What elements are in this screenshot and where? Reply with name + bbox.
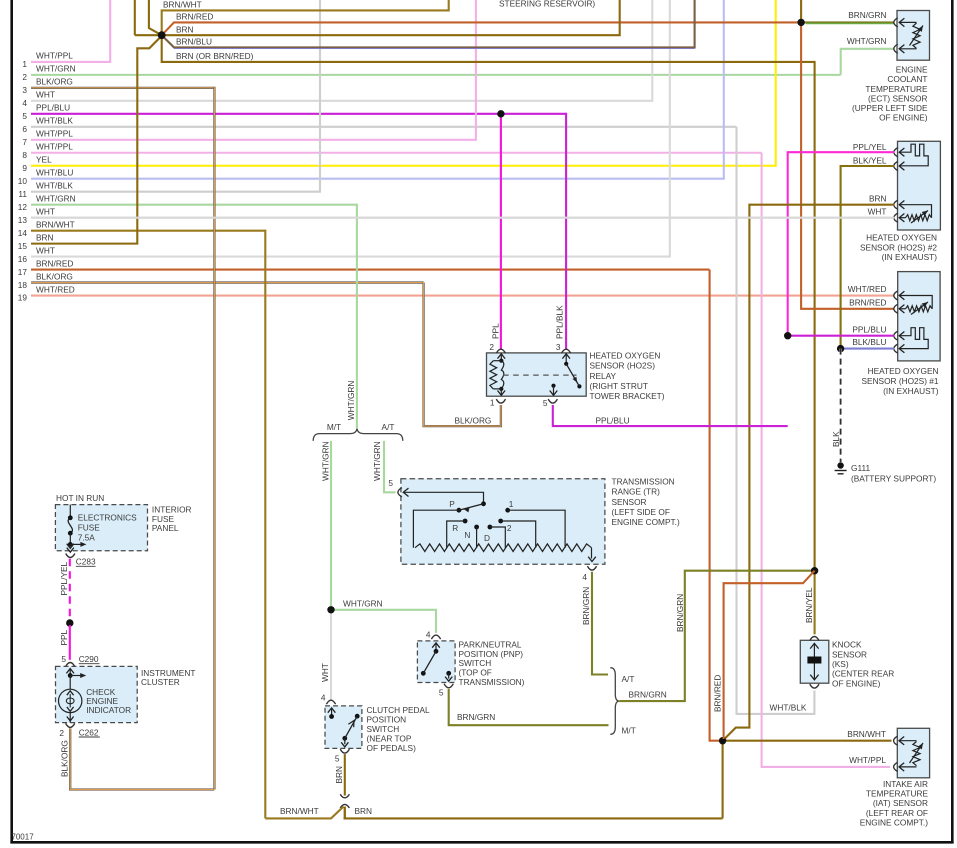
svg-text:5: 5 [543, 398, 548, 408]
svg-text:(UPPER LEFT SIDE: (UPPER LEFT SIDE [852, 103, 928, 113]
svg-text:16: 16 [18, 254, 28, 264]
svg-text:OF ENGINE): OF ENGINE) [832, 678, 881, 688]
svg-text:BRN/GRN: BRN/GRN [457, 712, 495, 722]
svg-text:CLUSTER: CLUSTER [141, 677, 180, 687]
svg-text:2: 2 [489, 342, 494, 352]
svg-text:TRANSMISSION): TRANSMISSION) [459, 677, 525, 687]
svg-text:BRN/GRN: BRN/GRN [848, 10, 886, 20]
svg-text:PPL/BLU: PPL/BLU [36, 103, 70, 113]
svg-text:ELECTRONICS: ELECTRONICS [78, 513, 137, 523]
svg-text:BRN/GRN: BRN/GRN [629, 690, 667, 700]
svg-text:2: 2 [22, 72, 27, 82]
svg-text:1: 1 [22, 59, 27, 69]
svg-text:TEMPERATURE: TEMPERATURE [866, 789, 929, 799]
svg-text:BLK/ORG: BLK/ORG [36, 77, 73, 87]
svg-text:BRN/BLU: BRN/BLU [176, 37, 212, 47]
svg-text:3: 3 [556, 342, 561, 352]
svg-text:7: 7 [22, 137, 27, 147]
svg-text:M/T: M/T [327, 422, 341, 432]
svg-text:HEATED OXYGEN: HEATED OXYGEN [868, 366, 939, 376]
svg-text:HEATED OXYGEN: HEATED OXYGEN [590, 350, 661, 360]
svg-text:BRN/GRN: BRN/GRN [581, 587, 591, 625]
svg-text:(BATTERY SUPPORT): (BATTERY SUPPORT) [851, 474, 936, 484]
svg-text:WHT/GRN: WHT/GRN [346, 381, 356, 421]
svg-text:P: P [449, 499, 455, 509]
svg-text:SENSOR: SENSOR [612, 497, 647, 507]
svg-text:BRN: BRN [869, 193, 887, 203]
svg-text:G111: G111 [851, 463, 870, 473]
svg-text:4: 4 [22, 98, 27, 108]
svg-text:19: 19 [18, 293, 28, 303]
svg-text:9: 9 [22, 163, 27, 173]
svg-text:5: 5 [22, 111, 27, 121]
svg-text:BRN/WHT: BRN/WHT [847, 729, 886, 739]
svg-text:BRN/WHT: BRN/WHT [36, 219, 75, 229]
svg-text:A/T: A/T [382, 422, 395, 432]
svg-text:WHT/PPL: WHT/PPL [36, 51, 73, 61]
svg-text:D: D [484, 533, 490, 543]
svg-text:SENSOR: SENSOR [832, 649, 867, 659]
svg-text:BRN/RED: BRN/RED [712, 675, 722, 712]
svg-text:KNOCK: KNOCK [832, 640, 862, 650]
svg-text:WHT/GRN: WHT/GRN [320, 441, 330, 481]
svg-text:OF PEDALS): OF PEDALS) [367, 743, 417, 753]
svg-text:PPL/BLU: PPL/BLU [852, 324, 886, 334]
svg-text:1: 1 [490, 398, 495, 408]
svg-text:7.5A: 7.5A [78, 533, 96, 543]
svg-text:2: 2 [59, 728, 64, 738]
svg-text:3: 3 [22, 85, 27, 95]
svg-text:BRN: BRN [355, 806, 373, 816]
svg-text:17: 17 [18, 267, 28, 277]
svg-text:PPL/YEL: PPL/YEL [853, 142, 887, 152]
svg-text:BRN: BRN [176, 24, 194, 34]
svg-text:5: 5 [335, 754, 340, 764]
svg-text:8: 8 [22, 150, 27, 160]
svg-text:(RIGHT STRUT: (RIGHT STRUT [590, 381, 648, 391]
svg-text:(CENTER REAR: (CENTER REAR [832, 669, 894, 679]
svg-text:BRN: BRN [36, 232, 54, 242]
svg-text:(ECT) SENSOR: (ECT) SENSOR [868, 93, 927, 103]
svg-text:4: 4 [426, 630, 431, 640]
svg-text:N: N [464, 530, 470, 540]
svg-text:BRN/RED: BRN/RED [176, 12, 213, 22]
svg-text:(IN EXHAUST): (IN EXHAUST) [882, 252, 938, 262]
svg-text:COOLANT: COOLANT [887, 74, 927, 84]
svg-text:R: R [452, 523, 458, 533]
svg-text:70017: 70017 [11, 832, 34, 841]
svg-text:HEATED OXYGEN: HEATED OXYGEN [866, 232, 937, 242]
svg-text:BRN/YEL: BRN/YEL [804, 587, 814, 623]
svg-text:YEL: YEL [36, 155, 52, 165]
svg-text:WHT/BLK: WHT/BLK [770, 702, 807, 712]
svg-text:ENGINE COMPT.): ENGINE COMPT.) [860, 818, 928, 828]
svg-text:WHT: WHT [36, 245, 55, 255]
svg-text:WHT/PPL: WHT/PPL [36, 129, 73, 139]
svg-text:SENSOR (HO2S) #2: SENSOR (HO2S) #2 [860, 242, 937, 252]
svg-text:WHT: WHT [868, 206, 887, 216]
svg-text:10: 10 [18, 176, 28, 186]
svg-text:WHT/BLK: WHT/BLK [36, 116, 73, 126]
svg-text:RELAY: RELAY [590, 371, 617, 381]
svg-text:BRN/GRN: BRN/GRN [675, 594, 685, 632]
svg-text:PPL: PPL [490, 323, 500, 339]
svg-text:PPL: PPL [59, 629, 69, 645]
svg-text:1: 1 [509, 499, 514, 509]
svg-text:15: 15 [18, 241, 28, 251]
svg-text:M/T: M/T [622, 726, 636, 736]
svg-text:13: 13 [18, 215, 28, 225]
svg-text:BRN/RED: BRN/RED [36, 258, 73, 268]
svg-text:(IN EXHAUST): (IN EXHAUST) [883, 386, 939, 396]
svg-text:PPL/BLK: PPL/BLK [555, 305, 565, 339]
svg-text:WHT/BLK: WHT/BLK [36, 181, 73, 191]
svg-text:TOWER BRACKET): TOWER BRACKET) [590, 391, 665, 401]
svg-text:2: 2 [507, 523, 512, 533]
svg-text:FUSE: FUSE [78, 523, 101, 533]
svg-text:WHT/GRN: WHT/GRN [36, 193, 76, 203]
svg-text:C262: C262 [79, 727, 99, 737]
svg-text:A/T: A/T [622, 674, 635, 684]
svg-text:4: 4 [321, 693, 326, 703]
svg-text:(LEFT REAR OF: (LEFT REAR OF [866, 808, 928, 818]
svg-text:(LEFT SIDE OF: (LEFT SIDE OF [612, 507, 670, 517]
svg-text:BRN/RED: BRN/RED [849, 297, 886, 307]
svg-text:INTAKE AIR: INTAKE AIR [883, 779, 928, 789]
svg-text:WHT/GRN: WHT/GRN [343, 599, 383, 609]
svg-text:BLK/ORG: BLK/ORG [59, 740, 69, 777]
svg-text:(IAT) SENSOR: (IAT) SENSOR [873, 798, 928, 808]
svg-text:ENGINE: ENGINE [896, 65, 928, 75]
svg-text:BRN: BRN [334, 766, 344, 784]
svg-text:C283: C283 [76, 557, 96, 567]
svg-text:14: 14 [18, 228, 28, 238]
svg-text:PANEL: PANEL [152, 523, 179, 533]
svg-text:PPL/YEL: PPL/YEL [59, 561, 69, 595]
svg-text:TEMPERATURE: TEMPERATURE [865, 84, 928, 94]
svg-text:5: 5 [388, 478, 393, 488]
svg-text:5: 5 [61, 654, 66, 664]
svg-text:PPL/BLU: PPL/BLU [596, 415, 630, 425]
svg-text:WHT/GRN: WHT/GRN [847, 36, 887, 46]
svg-text:INDICATOR: INDICATOR [86, 705, 131, 715]
svg-text:WHT/GRN: WHT/GRN [372, 441, 382, 481]
svg-text:WHT: WHT [36, 206, 55, 216]
svg-text:HOT IN RUN: HOT IN RUN [56, 493, 104, 503]
svg-text:6: 6 [22, 124, 27, 134]
svg-text:(KS): (KS) [832, 659, 849, 669]
svg-text:5: 5 [439, 688, 444, 698]
svg-text:BLK/ORG: BLK/ORG [455, 415, 492, 425]
svg-text:BLK/BLU: BLK/BLU [852, 337, 886, 347]
svg-text:RANGE (TR): RANGE (TR) [612, 487, 661, 497]
svg-text:WHT: WHT [36, 90, 55, 100]
svg-text:BRN/WHT: BRN/WHT [280, 806, 319, 816]
svg-text:18: 18 [18, 280, 28, 290]
svg-text:WHT: WHT [320, 663, 330, 682]
svg-text:SENSOR (HO2S): SENSOR (HO2S) [590, 361, 656, 371]
svg-text:12: 12 [18, 202, 28, 212]
svg-text:WHT/RED: WHT/RED [36, 284, 75, 294]
svg-text:BLK/YEL: BLK/YEL [853, 155, 887, 165]
svg-text:11: 11 [18, 189, 27, 199]
svg-text:4: 4 [582, 572, 587, 582]
svg-text:SENSOR (HO2S) #1: SENSOR (HO2S) #1 [862, 376, 939, 386]
svg-text:TRANSMISSION: TRANSMISSION [612, 477, 675, 487]
svg-text:BRN (OR BRN/RED): BRN (OR BRN/RED) [176, 51, 254, 61]
svg-text:BLK: BLK [831, 431, 841, 447]
svg-text:BLK/ORG: BLK/ORG [36, 271, 73, 281]
svg-text:STEERING RESERVOIR): STEERING RESERVOIR) [499, 0, 595, 8]
svg-text:C290: C290 [79, 654, 99, 664]
svg-text:ENGINE COMPT.): ENGINE COMPT.) [612, 517, 680, 527]
svg-text:WHT/PPL: WHT/PPL [36, 142, 73, 152]
svg-text:WHT/RED: WHT/RED [848, 284, 887, 294]
svg-text:WHT/BLU: WHT/BLU [36, 168, 73, 178]
svg-text:WHT/GRN: WHT/GRN [36, 64, 76, 74]
svg-text:WHT/PPL: WHT/PPL [849, 755, 886, 765]
svg-text:BRN/WHT: BRN/WHT [163, 0, 202, 9]
svg-text:OF ENGINE): OF ENGINE) [879, 113, 928, 123]
